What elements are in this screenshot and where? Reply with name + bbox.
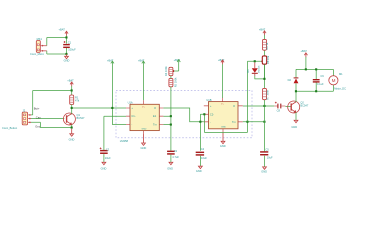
svg-text:O: O (154, 106, 156, 110)
svg-text:C4: C4 (201, 147, 205, 151)
svg-text:U1A: U1A (128, 100, 133, 104)
svg-text:GND: GND (196, 169, 202, 173)
svg-text:Tm: Tm (232, 120, 236, 124)
svg-text:R5 100k: R5 100k (174, 77, 178, 87)
svg-text:LM358: LM358 (120, 139, 129, 143)
svg-text:100uF: 100uF (68, 48, 76, 52)
svg-text:GND: GND (142, 128, 147, 130)
svg-text:M: M (332, 78, 336, 83)
svg-text:R6 10k: R6 10k (266, 55, 270, 64)
svg-text:GND: GND (220, 144, 226, 148)
svg-text:Tm: Tm (153, 123, 157, 127)
svg-text:C5: C5 (265, 147, 269, 151)
svg-text:10uF: 10uF (267, 156, 273, 160)
svg-text:D2: D2 (288, 78, 292, 82)
svg-text:But+: But+ (34, 107, 40, 111)
svg-text:GND: GND (261, 169, 267, 173)
svg-text:-: - (131, 124, 132, 127)
svg-text:47k: 47k (75, 99, 80, 103)
svg-text:+BAT: +BAT (174, 58, 181, 62)
svg-text:0.1uF: 0.1uF (317, 82, 324, 86)
svg-text:R2 1k: R2 1k (265, 42, 269, 49)
svg-text:GND: GND (101, 166, 107, 170)
svg-text:D1: D1 (246, 69, 250, 73)
svg-text:10uF: 10uF (105, 156, 111, 160)
svg-text:MK1: MK1 (37, 37, 43, 41)
svg-text:BC547: BC547 (300, 104, 308, 108)
svg-text:U1B: U1B (206, 98, 211, 102)
svg-text:BC547: BC547 (77, 116, 85, 120)
svg-text:C8: C8 (277, 109, 281, 113)
svg-text:C3: C3 (174, 149, 178, 153)
svg-text:E1: E1 (153, 114, 157, 118)
svg-text:Motor_DC: Motor_DC (334, 86, 346, 90)
svg-text:R4 100k: R4 100k (164, 66, 168, 76)
svg-text:+BAT: +BAT (301, 49, 308, 53)
svg-text:+BAT: +BAT (67, 79, 74, 83)
svg-text:O: O (233, 104, 235, 108)
svg-text:GND: GND (167, 167, 173, 171)
svg-text:Conn_Button: Conn_Button (2, 126, 18, 130)
svg-text:GND: GND (291, 125, 297, 129)
svg-text:C9: C9 (320, 74, 324, 78)
svg-text:C1-: C1- (131, 114, 135, 118)
svg-text:M1: M1 (339, 72, 343, 76)
svg-text:GND: GND (141, 146, 147, 150)
svg-text:Conn_Micro: Conn_Micro (30, 52, 45, 56)
svg-text:R7 100k: R7 100k (266, 89, 270, 99)
svg-text:GND: GND (221, 127, 226, 129)
svg-text:-: - (210, 121, 211, 124)
svg-text:GND: GND (69, 138, 75, 142)
svg-text:C2-: C2- (210, 112, 214, 116)
svg-text:4.7uF: 4.7uF (172, 155, 179, 159)
svg-text:1N4148: 1N4148 (258, 65, 260, 73)
svg-text:C1: C1 (68, 40, 72, 44)
svg-text:GND: GND (64, 58, 70, 62)
svg-text:C2: C2 (106, 147, 110, 151)
svg-text:+BAT: +BAT (59, 28, 66, 32)
svg-text:10uF: 10uF (201, 156, 207, 160)
